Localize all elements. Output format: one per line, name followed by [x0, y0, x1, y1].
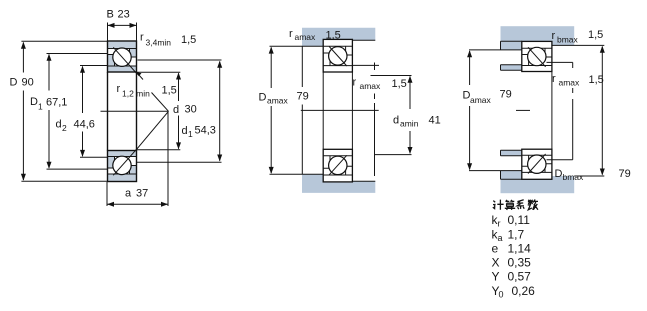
bearing bottom section right lip (shaded) [130, 166, 137, 175]
ball bottom middle (white) [329, 156, 347, 174]
svg-text:d: d [173, 104, 179, 116]
bearing bottom box [323, 149, 352, 182]
svg-text:Y: Y [492, 270, 500, 284]
svg-text:D: D [10, 77, 18, 89]
svg-text:1: 1 [38, 102, 43, 112]
bearing top section right lip (outer ring shoulder, shaded) [130, 49, 137, 58]
housing shoulder block top (blue) [501, 41, 522, 50]
svg-text:0,57: 0,57 [508, 270, 532, 284]
svg-text:r: r [552, 30, 556, 42]
svg-text:0: 0 [499, 290, 504, 300]
svg-text:amax: amax [470, 95, 492, 105]
dimension damin: line with arrows (interrupted by text) [409, 77, 411, 154]
shoulder block outline top [501, 41, 522, 50]
char 计 [493, 200, 504, 210]
svg-text:r: r [552, 73, 556, 85]
dimension d: line with arrows (interrupted by text) [178, 73, 180, 149]
svg-text:1,5: 1,5 [326, 30, 341, 42]
bar shoulder edge line bottom left [302, 173, 323, 175]
svg-text:amin: amin [400, 119, 419, 129]
left connector line (interrupted by 79 text) [301, 46, 303, 174]
svg-text:bmax: bmax [557, 35, 579, 45]
svg-text:1,5: 1,5 [181, 34, 196, 46]
svg-text:1,5: 1,5 [162, 85, 177, 97]
bearing top section outer ring band (shaded) [108, 41, 137, 49]
bearing side faces between sections [108, 72, 137, 151]
contact angle line through top ball [113, 47, 137, 74]
dimension B: line with arrows [108, 24, 137, 26]
svg-text:79: 79 [297, 91, 309, 103]
centerline axis [101, 110, 169, 112]
between-box side face lines [323, 72, 352, 149]
bar edge line bottom right [352, 180, 375, 182]
r1,2 leader arrow to inner ring corner [137, 73, 143, 79]
ball top middle (white) [329, 47, 347, 65]
svg-text:amax: amax [559, 78, 581, 88]
dimension d: extension lines [137, 72, 181, 150]
svg-text:44,6: 44,6 [74, 119, 95, 131]
between-box side face line right drawing [551, 72, 553, 150]
svg-text:d: d [393, 115, 399, 127]
bearing bottom section left lip (shaded) [108, 157, 115, 169]
svg-text:e: e [492, 242, 499, 256]
shaft bar bottom (blue, stepped) [302, 174, 375, 193]
svg-text:1,14: 1,14 [508, 242, 532, 256]
spacer tab outline top [501, 65, 522, 71]
bottom box internal lines [323, 156, 352, 175]
ball bottom (white circle) [113, 156, 131, 174]
bar shoulder edge line top left [302, 45, 323, 47]
bearing top box [323, 39, 352, 72]
svg-text:1: 1 [188, 129, 193, 139]
svg-text:amax: amax [267, 96, 289, 106]
contact angle line segment to pressure center [152, 93, 169, 112]
svg-text:54,3: 54,3 [195, 125, 216, 137]
svg-text:r: r [498, 219, 501, 229]
dimension a: line with arrows [107, 203, 168, 205]
svg-text:0,11: 0,11 [508, 213, 531, 227]
svg-text:1,7: 1,7 [508, 228, 525, 242]
bearing top section inner ring band (shaded) [108, 66, 137, 72]
ball top (white circle) [113, 48, 131, 66]
dimension Dbmax: line with arrows [601, 47, 603, 175]
svg-text:2: 2 [62, 123, 67, 133]
svg-text:D: D [259, 92, 267, 104]
spacer tab bottom (blue) [501, 150, 522, 156]
dimension d1: line with arrows [219, 62, 221, 161]
contact diagonal top right [528, 47, 546, 67]
dimension Damax right: extension lines [469, 50, 501, 171]
svg-text:41: 41 [429, 115, 441, 127]
dimension D: extension lines [21, 41, 107, 181]
svg-text:d: d [56, 119, 62, 131]
bar bottom edge line top right (merges into Dbmax ext) [552, 44, 604, 46]
bearing bottom section outline [108, 151, 137, 182]
svg-text:r: r [140, 32, 144, 44]
contact angle line segment bottom to pressure center [136, 111, 168, 150]
svg-text:0,35: 0,35 [508, 256, 532, 270]
ball top right (white) [528, 47, 546, 65]
bottom box internal lines right [522, 155, 552, 172]
svg-text:79: 79 [619, 168, 631, 180]
svg-text:bmax: bmax [563, 172, 585, 182]
svg-text:1,2 min: 1,2 min [122, 89, 150, 99]
svg-text:67,1: 67,1 [46, 97, 67, 109]
dimension Damax: line with arrows (interrupted by text) [270, 48, 272, 174]
dimension D: line with arrows (interrupted by text) [22, 43, 24, 181]
bearing top section left lip (inner ring shoulder, shaded) [108, 55, 115, 67]
svg-text:1,5: 1,5 [588, 29, 603, 41]
bearing bottom box right [522, 149, 552, 179]
svg-text:0,26: 0,26 [512, 284, 536, 298]
svg-text:r: r [289, 28, 293, 40]
housing shoulder block bottom (blue) [501, 171, 522, 180]
svg-text:1,5: 1,5 [589, 74, 604, 86]
svg-text:23: 23 [118, 9, 130, 21]
contact diagonal top middle [329, 47, 347, 67]
dimension Dbmax: bottom extension line [574, 175, 604, 177]
svg-text:79: 79 [500, 89, 512, 101]
svg-text:30: 30 [185, 104, 197, 116]
dimension d2: extension lines [80, 66, 108, 158]
dimension ramax right drawing: corner lines [547, 62, 573, 159]
dimension Damax right: line with arrows (interrupted by text) [469, 51, 471, 169]
top section internal lines [108, 49, 137, 67]
ball bottom right (white) [528, 155, 546, 173]
char 算 [505, 200, 515, 210]
dimension d1: extension lines [137, 60, 222, 162]
centerline [301, 109, 379, 111]
housing bar top right (blue) [501, 26, 575, 45]
svg-text:90: 90 [22, 77, 34, 89]
char 数 [528, 200, 538, 210]
svg-text:r: r [353, 77, 357, 89]
svg-text:amax: amax [360, 81, 382, 91]
spacer tab top (blue) [501, 65, 522, 71]
top box internal lines [323, 46, 352, 65]
short centerline right drawing [516, 109, 530, 111]
dimension D1: line with arrows (interrupted by text) [48, 55, 50, 169]
bearing bottom section inner ring band (shaded) [108, 151, 137, 157]
dimension D1: extension lines [47, 54, 108, 170]
svg-text:d: d [182, 125, 188, 137]
dimension d2: line with arrows (interrupted by text) [82, 67, 84, 157]
shoulder block outline bottom [501, 171, 522, 180]
svg-text:D: D [30, 96, 38, 108]
spacer tab outline bottom [501, 150, 522, 156]
svg-text:r: r [117, 83, 121, 95]
housing bar top (blue, stepped) [302, 28, 375, 47]
svg-text:B: B [107, 9, 114, 21]
svg-text:37: 37 [136, 188, 148, 200]
contact diagonal bottom middle [329, 155, 347, 175]
bearing top section outline [108, 41, 137, 72]
svg-text:amax: amax [295, 32, 317, 42]
dimension B: extension lines [108, 23, 137, 42]
svg-text:D: D [555, 168, 563, 180]
heading 计算系数 (drawn strokes) [493, 200, 538, 210]
svg-text:a: a [125, 188, 132, 200]
dimension a: extension lines [107, 111, 168, 206]
svg-text:X: X [492, 256, 500, 270]
bearing bottom section outer ring band (shaded) [108, 174, 137, 182]
dimension damin: extension lines [371, 76, 412, 155]
bar edge line top right [352, 39, 375, 41]
housing bar bottom right (blue) [501, 176, 575, 193]
ramax corner line right [353, 63, 379, 177]
svg-text:1,5: 1,5 [392, 78, 407, 90]
contact diagonal bottom right [528, 154, 546, 174]
dimension Damax: extension lines [270, 46, 303, 174]
bearing top box right [522, 41, 552, 71]
svg-text:3,4min: 3,4min [146, 38, 172, 48]
char 系 [517, 200, 524, 209]
svg-text:a: a [498, 233, 503, 243]
bottom section internal lines [108, 157, 137, 175]
top box internal lines right [522, 48, 552, 65]
contact angle line through bottom ball [113, 148, 137, 175]
